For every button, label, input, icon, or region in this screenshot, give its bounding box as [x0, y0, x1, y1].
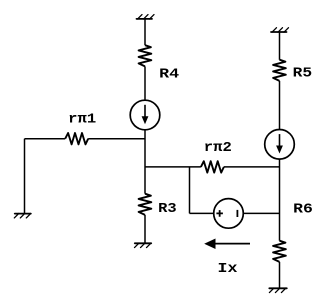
power symbol (top of R4 branch) [137, 15, 155, 20]
resistor R3 [139, 194, 152, 215]
resistor R6 [273, 241, 286, 262]
ground (left) [14, 213, 31, 218]
resistor R5 [273, 60, 286, 81]
wire: R3 bottom to ground [144, 215, 146, 243]
svg-text:R3: R3 [158, 201, 177, 217]
svg-text:R4: R4 [159, 66, 179, 82]
wire: left vertical down to ground [24, 139, 26, 214]
wire: node B to rpi2 [145, 166, 201, 168]
wire: power to R4 top [144, 19, 146, 45]
voltage source V1 (+ -) [214, 199, 244, 229]
wire: R4 bottom to current source I1 [144, 66, 146, 100]
wire: V1 right terminal to right branch [244, 212, 280, 214]
wire: R6 bottom to ground [279, 262, 281, 288]
ground (center, below R3) [135, 243, 152, 248]
svg-text:Ix: Ix [218, 261, 239, 277]
wire: I1 bottom down to R3 top (through node B) [144, 130, 146, 194]
power symbol (top of R5 branch) [271, 28, 289, 33]
current source I2 [265, 130, 295, 160]
ground (right, below R6) [269, 288, 287, 293]
wire: I2 bottom down to R6 top (through junctions) [279, 159, 281, 241]
wire: left horizontal (node at I1 bottom to rpi1) [88, 138, 145, 140]
svg-text:R5: R5 [293, 65, 313, 81]
wire: power to R5 top [279, 32, 281, 60]
current arrow Ix (annotation) [204, 239, 250, 250]
resistor rpi2 [201, 161, 224, 172]
wire: rpi2 right to right branch [224, 166, 280, 168]
resistor rpi1 [65, 133, 88, 144]
svg-text:rπ2: rπ2 [204, 140, 232, 156]
wire: R5 bottom to current source I2 [279, 81, 281, 130]
wire: drop corner to V1 left terminal [190, 212, 214, 214]
wire: rpi1 left to corner [25, 138, 66, 140]
svg-text:R6: R6 [293, 201, 313, 217]
wire: vertical drop to voltage source row [189, 167, 191, 214]
svg-text:rπ1: rπ1 [68, 111, 96, 127]
resistor R4 [139, 45, 152, 66]
current source I1 [130, 100, 160, 130]
